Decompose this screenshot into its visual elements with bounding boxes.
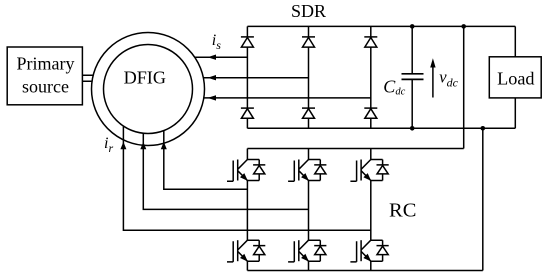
capacitor C_dc plates xyxy=(402,74,424,80)
transistor S3 (IGBT top leg3) xyxy=(350,160,388,182)
wire RC leg 3 segments xyxy=(370,149,372,271)
wire stator phase a xyxy=(195,56,248,58)
wire Load top lead xyxy=(514,26,516,56)
diode D2 xyxy=(302,37,315,47)
wire stator phase c xyxy=(204,97,371,99)
wire SDR leg 2 xyxy=(308,26,310,128)
node junction dot DC- riser xyxy=(481,126,486,131)
node junction dot top C_dc xyxy=(410,24,415,29)
wire stator phase b xyxy=(203,77,308,79)
wire DC+ riser to RC xyxy=(463,26,465,148)
wire rotor phase c xyxy=(123,126,370,231)
wire RC bottom rail xyxy=(247,270,482,272)
wire rotor phase a xyxy=(164,130,248,189)
wire RC leg 2 segments xyxy=(308,149,310,271)
wire rotor phase b xyxy=(143,133,308,210)
wire DC- bottom rail xyxy=(247,127,515,129)
diode D3 xyxy=(364,37,377,47)
wire Load bottom lead xyxy=(514,98,516,128)
capacitor C_dc bottom lead xyxy=(411,79,413,128)
arrow is phase c xyxy=(208,95,217,100)
svg-text:Primary: Primary xyxy=(17,53,75,73)
shaft xyxy=(83,75,94,81)
arrow ir phase a xyxy=(161,142,167,149)
arrow ir phase c xyxy=(120,142,126,149)
Primary source box xyxy=(7,47,82,105)
svg-text:DFIG: DFIG xyxy=(124,67,166,87)
wire SDR leg 1 xyxy=(246,26,248,128)
diode D1 xyxy=(241,37,254,47)
transistor S6 (IGBT bottom leg3) xyxy=(350,240,388,262)
arrow is phase a xyxy=(208,55,217,60)
wire DC- riser to RC xyxy=(482,128,484,270)
DFIG machine outer circle xyxy=(92,33,205,146)
svg-text:source: source xyxy=(22,77,69,97)
Load box xyxy=(489,57,541,98)
arrow ir phase b xyxy=(140,142,146,149)
diode D6 xyxy=(364,108,377,118)
svg-text:Load: Load xyxy=(497,68,534,88)
capacitor C_dc top lead xyxy=(411,26,413,73)
transistor S1 (IGBT top leg1) xyxy=(227,160,265,182)
arrow is phase b xyxy=(208,75,217,80)
wire RC top rail xyxy=(247,148,463,150)
diode D4 xyxy=(241,108,254,118)
svg-text:RC: RC xyxy=(389,200,416,222)
transistor S4 (IGBT bottom leg1) xyxy=(227,240,265,262)
node junction dot bottom C_dc xyxy=(410,126,415,131)
wire RC leg 1 segments xyxy=(246,149,248,271)
arrow v_dc xyxy=(432,66,434,98)
DFIG machine inner circle xyxy=(104,45,193,134)
node junction dot DC+ riser xyxy=(461,24,466,29)
transistor S2 (IGBT top leg2) xyxy=(288,160,326,182)
diode D5 xyxy=(302,108,315,118)
wire DC+ top rail xyxy=(247,25,515,27)
svg-text:SDR: SDR xyxy=(291,1,326,21)
transistor S5 (IGBT bottom leg2) xyxy=(288,240,326,262)
wire SDR leg 3 xyxy=(370,26,372,128)
